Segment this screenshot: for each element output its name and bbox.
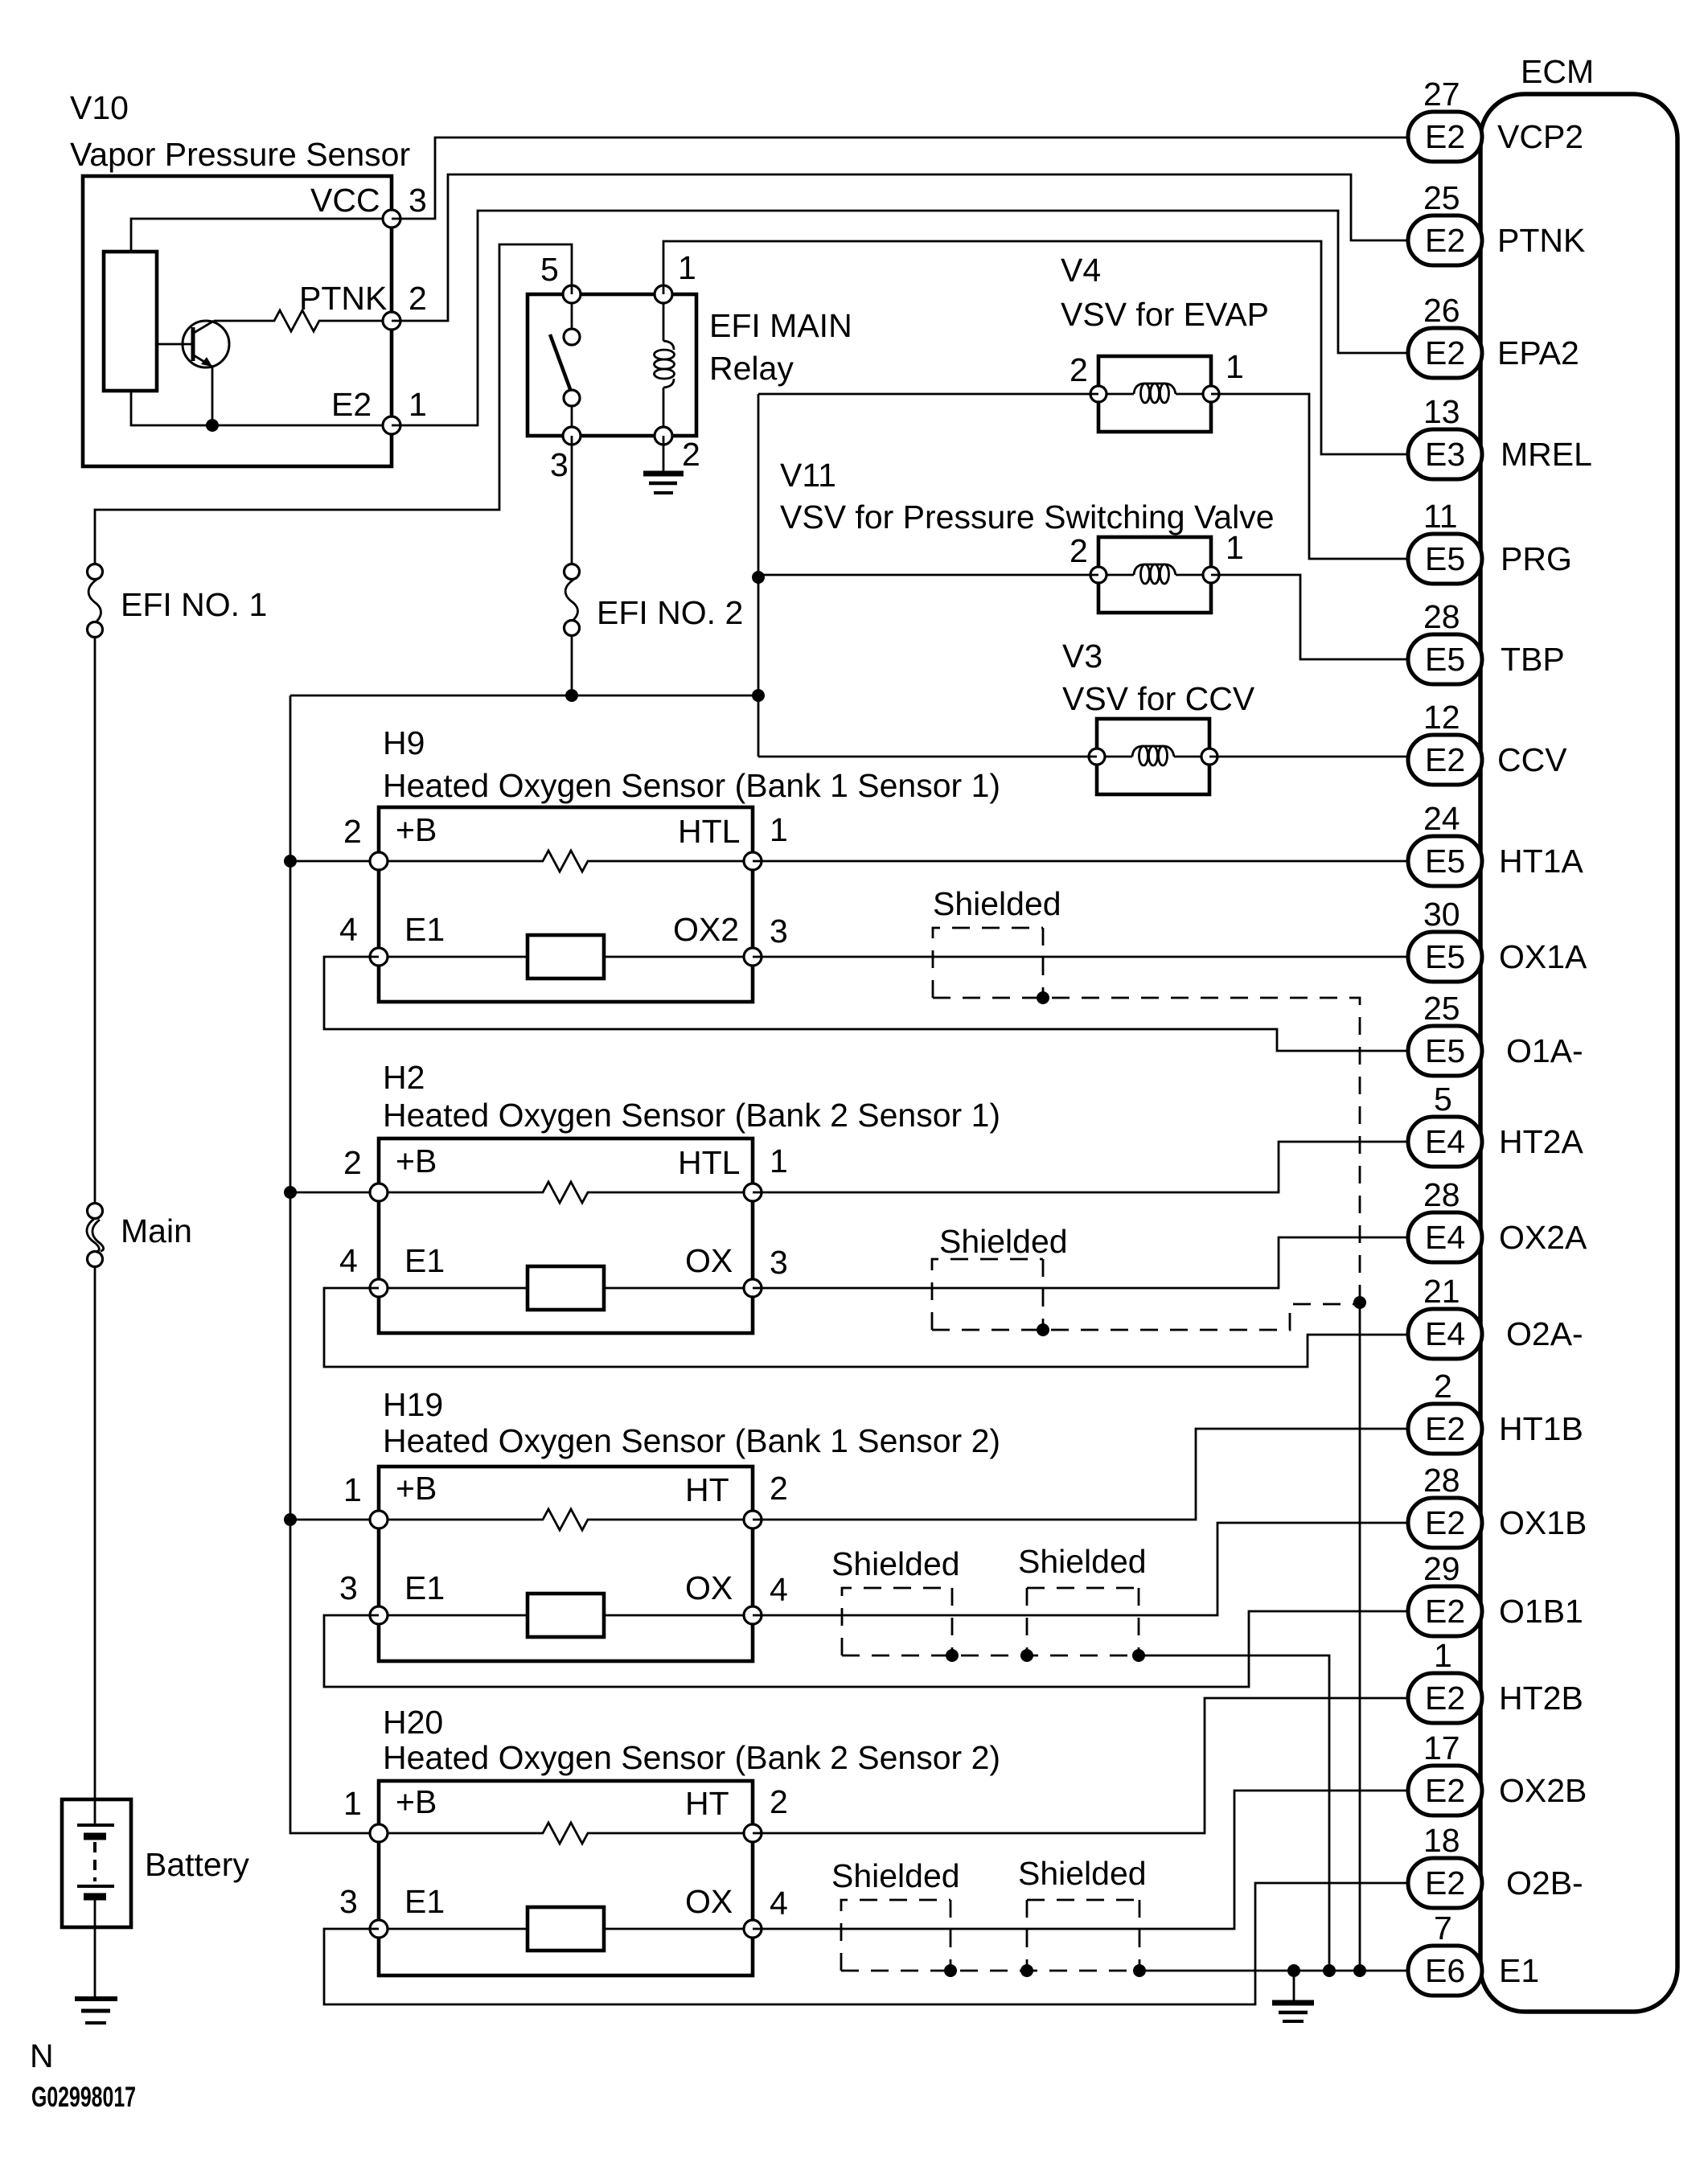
H2 sensing element xyxy=(379,1266,753,1310)
shield box 1 (H20 OX wire) xyxy=(841,1900,950,1971)
svg-text:7: 7 xyxy=(1434,1910,1452,1947)
svg-text:E5: E5 xyxy=(1425,843,1465,880)
svg-text:+B: +B xyxy=(396,1783,437,1820)
wire relay pin5 to battery feed via EFI NO.1 xyxy=(95,244,572,564)
svg-text:VSV for Pressure Switching Val: VSV for Pressure Switching Valve xyxy=(780,498,1275,535)
shield box 1 (H19 OX wire) xyxy=(842,1588,952,1655)
V10 internal wire resistor bottom to E2 xyxy=(131,391,392,425)
wire H20 HT to HT2B xyxy=(753,1698,1408,1833)
H2 pin 1 HTL circle xyxy=(744,1184,762,1201)
node: shield D junction 1 xyxy=(944,1964,957,1977)
wire V11 pin2 to supply riser xyxy=(758,574,1098,576)
wire EFI NO.2 to +B distribution junction xyxy=(571,635,573,695)
svg-text:4: 4 xyxy=(770,1885,788,1922)
ECM pin 29 E2 O1B1 xyxy=(1408,1550,1583,1636)
H20 sensing element xyxy=(379,1907,753,1951)
svg-text:E5: E5 xyxy=(1425,641,1465,678)
H19 labels xyxy=(339,1386,1000,1608)
H20 pin 3 E1 circle xyxy=(370,1920,388,1938)
relay pin 1 circle xyxy=(655,285,672,303)
ECM pin 17 E2 OX2B xyxy=(1408,1729,1587,1815)
svg-text:E2: E2 xyxy=(331,386,372,423)
svg-text:E3: E3 xyxy=(1425,436,1465,473)
V4 VSV for EVAP xyxy=(1090,356,1219,432)
V11 VSV for Pressure Switching Valve labels xyxy=(780,457,1275,569)
ECM pin 24 E5 HT1A xyxy=(1408,800,1583,886)
svg-text:E2: E2 xyxy=(1425,222,1465,259)
svg-text:3: 3 xyxy=(409,182,427,219)
shield drain (H2) dashed jog to main drain xyxy=(932,1304,1360,1330)
node: shield C junction 1 xyxy=(946,1649,959,1662)
svg-text:11: 11 xyxy=(1423,498,1458,535)
svg-text:E1: E1 xyxy=(404,911,445,948)
wire VCC(3) to VCP2 xyxy=(392,137,1408,219)
V10 internal wire VCC to resistor xyxy=(131,219,392,252)
svg-text:E1: E1 xyxy=(1499,1952,1539,1989)
wire H19 E1 to O1B1 xyxy=(324,1611,1408,1687)
V10 pin 3 VCC circle xyxy=(383,210,400,228)
svg-text:OX: OX xyxy=(685,1569,733,1606)
V10 pin 2 PTNK circle xyxy=(383,312,400,330)
shield drain (H19) dashed bottom tie xyxy=(842,1655,1139,1657)
svg-text:E5: E5 xyxy=(1425,938,1465,975)
svg-text:26: 26 xyxy=(1423,292,1460,329)
svg-text:VCC: VCC xyxy=(310,182,380,219)
svg-text:HT: HT xyxy=(685,1785,729,1822)
wire shield drain (H19) to E1 xyxy=(1139,1655,1329,1971)
wire relay pin3 to EFI NO.2 xyxy=(571,436,573,564)
svg-text:V4: V4 xyxy=(1061,252,1101,289)
svg-text:+B: +B xyxy=(396,1143,437,1179)
ECM pin 25 E2 PTNK xyxy=(1408,179,1585,265)
svg-text:H9: H9 xyxy=(383,724,425,761)
svg-text:VSV for EVAP: VSV for EVAP xyxy=(1061,296,1269,333)
svg-text:Heated Oxygen Sensor (Bank 2 S: Heated Oxygen Sensor (Bank 2 Sensor 1) xyxy=(383,1097,1000,1134)
H9 pin 2 +B circle xyxy=(370,852,388,870)
svg-text:25: 25 xyxy=(1423,990,1460,1027)
fuse EFI NO. 1 xyxy=(88,564,268,638)
svg-text:N: N xyxy=(30,2037,54,2074)
node: shield A bottom junction xyxy=(1037,991,1049,1004)
svg-text:E1: E1 xyxy=(404,1883,445,1920)
svg-text:28: 28 xyxy=(1423,1462,1460,1499)
wire +B rail down the sensors xyxy=(290,695,379,1833)
V10 pin 1 E2 circle xyxy=(383,416,400,434)
svg-text:E2: E2 xyxy=(1425,1410,1465,1447)
svg-text:EFI NO. 1: EFI NO. 1 xyxy=(121,586,267,623)
node: V10 emitter junction xyxy=(206,419,219,432)
svg-text:29: 29 xyxy=(1423,1550,1460,1587)
ECM pin 7 E6 E1 xyxy=(1408,1910,1539,1996)
H2 pin 4 E1 circle xyxy=(370,1279,388,1297)
svg-text:OX2: OX2 xyxy=(673,911,739,948)
H2 labels xyxy=(339,1059,1000,1281)
svg-text:1: 1 xyxy=(1226,348,1244,385)
svg-text:Shielded: Shielded xyxy=(831,1545,960,1582)
wire H2 OX to OX2A xyxy=(753,1237,1408,1288)
H19 pin 3 E1 circle xyxy=(370,1606,388,1624)
H2 pin 3 OX circle xyxy=(744,1279,762,1297)
svg-text:5: 5 xyxy=(540,251,559,288)
H20 pin 4 OX circle xyxy=(744,1920,762,1938)
node: junction +B rail / VSV supply riser xyxy=(752,689,765,702)
svg-text:PTNK: PTNK xyxy=(1497,222,1585,259)
svg-text:OX1B: OX1B xyxy=(1499,1504,1587,1541)
svg-text:HT1B: HT1B xyxy=(1499,1410,1583,1447)
wire H9 E1 to O1A- xyxy=(324,957,1408,1051)
V3 VSV for CCV labels xyxy=(1062,638,1255,717)
svg-text:17: 17 xyxy=(1423,1729,1460,1766)
H9 pin 3 OX2 circle xyxy=(744,948,762,966)
node: drain junction xyxy=(1353,1296,1366,1309)
svg-text:V10: V10 xyxy=(70,89,129,126)
svg-text:2: 2 xyxy=(1070,532,1088,569)
ECM pin 1 E2 HT2B xyxy=(1408,1637,1583,1723)
svg-text:2: 2 xyxy=(770,1783,788,1820)
svg-text:2: 2 xyxy=(1070,351,1088,388)
svg-text:3: 3 xyxy=(339,1569,358,1606)
H20 Heated Oxygen Sensor box xyxy=(379,1781,753,1975)
svg-text:HT2A: HT2A xyxy=(1499,1123,1583,1160)
V10 pin labels xyxy=(299,182,427,423)
svg-text:3: 3 xyxy=(770,1244,788,1281)
H19 heater resistor xyxy=(379,1509,753,1530)
svg-text:E4: E4 xyxy=(1425,1123,1465,1160)
shield drain (H20) dashed bottom tie xyxy=(841,1970,1139,1972)
svg-text:+B: +B xyxy=(396,811,437,848)
wire E1 bus to ECM E1 pin xyxy=(1139,1970,1408,1972)
svg-text:2: 2 xyxy=(770,1470,788,1507)
node: junction V11 supply xyxy=(752,571,765,584)
svg-text:HT1A: HT1A xyxy=(1499,843,1583,880)
ground (relay pin 2) xyxy=(643,436,684,493)
svg-text:Heated Oxygen Sensor (Bank 1 S: Heated Oxygen Sensor (Bank 1 Sensor 1) xyxy=(383,767,1000,804)
svg-text:Relay: Relay xyxy=(709,350,794,387)
svg-text:Shielded: Shielded xyxy=(933,885,1061,922)
relay switch xyxy=(550,294,580,436)
svg-text:E2: E2 xyxy=(1425,118,1465,155)
svg-text:1: 1 xyxy=(770,811,788,848)
svg-text:VSV for CCV: VSV for CCV xyxy=(1062,680,1255,717)
svg-text:ECM: ECM xyxy=(1521,53,1594,90)
svg-text:Shielded: Shielded xyxy=(1018,1855,1147,1892)
node: shield D junction 3 xyxy=(1133,1964,1146,1977)
ECM pin 28 E4 OX2A xyxy=(1408,1176,1587,1262)
fuse EFI NO. 2 xyxy=(565,564,744,636)
V4 VSV for EVAP labels xyxy=(1061,252,1269,388)
svg-text:CCV: CCV xyxy=(1497,741,1567,778)
svg-text:25: 25 xyxy=(1423,179,1460,216)
svg-text:E2: E2 xyxy=(1425,334,1465,371)
svg-text:4: 4 xyxy=(770,1571,788,1608)
shield box (H2 OX wire) xyxy=(932,1259,1043,1330)
svg-text:OX: OX xyxy=(685,1242,733,1279)
svg-text:E4: E4 xyxy=(1425,1315,1465,1352)
ECM pin 13 E3 MREL xyxy=(1408,393,1592,479)
svg-text:V11: V11 xyxy=(780,457,836,494)
svg-text:Main: Main xyxy=(121,1212,192,1249)
shield box 2 (H20 OX wire) xyxy=(1027,1900,1139,1971)
wire H9 OX2 to OX1A xyxy=(753,956,1408,958)
wire H9 HTL to HT1A xyxy=(753,860,1408,863)
relay pin 5 circle xyxy=(563,285,581,303)
wire stub to H9 +B xyxy=(290,860,379,863)
svg-text:28: 28 xyxy=(1423,1176,1460,1213)
H19 pin 1 +B circle xyxy=(370,1511,388,1528)
wire H19 HT to HT1B xyxy=(753,1429,1408,1520)
H19 pin 4 OX circle xyxy=(744,1606,762,1624)
svg-text:HT: HT xyxy=(685,1471,729,1508)
EFI MAIN Relay box xyxy=(528,294,696,436)
svg-text:Battery: Battery xyxy=(145,1846,249,1883)
svg-text:PTNK: PTNK xyxy=(299,280,387,317)
svg-text:E2: E2 xyxy=(1425,741,1465,778)
svg-text:Heated Oxygen Sensor (Bank 2 S: Heated Oxygen Sensor (Bank 2 Sensor 2) xyxy=(383,1739,1000,1776)
shield box 2 (H19 OX wire) xyxy=(1027,1588,1139,1655)
svg-text:EPA2: EPA2 xyxy=(1497,334,1579,371)
svg-text:E2: E2 xyxy=(1425,1504,1465,1541)
node: shield C junction 3 xyxy=(1132,1649,1145,1662)
H9 sensing element xyxy=(379,935,753,978)
svg-text:HTL: HTL xyxy=(678,813,740,850)
svg-text:28: 28 xyxy=(1423,598,1460,635)
node: H9 +B tap xyxy=(284,855,297,868)
ECM box xyxy=(1480,53,1677,2012)
svg-text:1: 1 xyxy=(343,1785,362,1822)
shield drain (H9) dashed to main drain xyxy=(933,998,1360,1303)
svg-text:24: 24 xyxy=(1423,800,1460,837)
wire VSV supply riser xyxy=(758,394,760,757)
wire H19 OX to OX1B xyxy=(753,1523,1408,1615)
svg-text:H2: H2 xyxy=(383,1059,425,1096)
H20 pin 1 +B circle xyxy=(370,1824,388,1842)
H9 pin 4 E1 circle xyxy=(370,948,388,966)
wire E2(1) to EPA2 xyxy=(392,211,1408,425)
svg-text:1: 1 xyxy=(409,386,427,423)
svg-text:MREL: MREL xyxy=(1501,436,1592,473)
svg-text:O2A-: O2A- xyxy=(1506,1315,1583,1352)
svg-text:PRG: PRG xyxy=(1501,540,1572,577)
V10 Vapor Pressure Sensor box xyxy=(83,176,392,466)
svg-text:O1A-: O1A- xyxy=(1506,1032,1583,1069)
H9 labels xyxy=(339,724,1000,950)
svg-text:E2: E2 xyxy=(1425,1772,1465,1809)
wire stub to H19 +B xyxy=(290,1519,379,1521)
node: E1 ground tap xyxy=(1287,1964,1300,1977)
svg-text:E5: E5 xyxy=(1425,540,1465,577)
H20 labels xyxy=(339,1704,1000,1922)
H19 Heated Oxygen Sensor box xyxy=(379,1467,753,1661)
svg-text:21: 21 xyxy=(1423,1273,1460,1310)
wire EFI NO.1 to Main fuse xyxy=(94,637,96,1204)
ECM pin 26 E2 EPA2 xyxy=(1408,292,1579,378)
V10 Vapor Pressure Sensor labels xyxy=(70,89,410,173)
svg-text:EFI NO. 2: EFI NO. 2 xyxy=(597,594,743,631)
V3 VSV for CCV xyxy=(1089,719,1217,794)
H20 pin 2 HT circle xyxy=(744,1824,762,1842)
svg-text:2: 2 xyxy=(409,280,427,317)
svg-text:E2: E2 xyxy=(1425,1593,1465,1630)
wire main shield drain to E1 xyxy=(1359,1303,1361,1971)
transistor Q (vapor pressure sensor) xyxy=(157,321,229,425)
svg-text:27: 27 xyxy=(1423,76,1460,113)
svg-text:O2B-: O2B- xyxy=(1506,1865,1583,1901)
svg-text:Shielded: Shielded xyxy=(831,1857,960,1894)
wire V3 pin1 to CCV xyxy=(1209,756,1408,758)
svg-text:2: 2 xyxy=(343,1144,362,1181)
ECM pin 28 E2 OX1B xyxy=(1408,1462,1587,1548)
ground (battery) xyxy=(75,1999,117,2023)
ECM pin 11 E5 PRG xyxy=(1408,498,1572,584)
wire stub to H2 +B xyxy=(290,1192,379,1194)
H9 pin 1 HTL circle xyxy=(744,852,762,870)
svg-text:12: 12 xyxy=(1423,699,1460,736)
ECM pin 28 E5 TBP xyxy=(1408,598,1565,684)
wire H20 E1 to O2B- xyxy=(324,1883,1408,2004)
resistor R (V10 output) zigzag xyxy=(214,310,392,331)
svg-text:E2: E2 xyxy=(1425,1865,1465,1901)
ECM pin 30 E5 OX1A xyxy=(1408,896,1587,982)
EFI MAIN Relay labels xyxy=(540,249,852,483)
svg-text:13: 13 xyxy=(1423,393,1460,430)
svg-text:Shielded: Shielded xyxy=(1018,1543,1147,1580)
svg-text:E5: E5 xyxy=(1425,1032,1465,1069)
battery xyxy=(62,1799,249,1996)
svg-text:E6: E6 xyxy=(1425,1952,1465,1989)
fuse Main xyxy=(87,1204,192,1267)
svg-text:1: 1 xyxy=(343,1471,362,1508)
svg-text:30: 30 xyxy=(1423,896,1460,933)
svg-text:1: 1 xyxy=(1434,1637,1452,1674)
H20 heater resistor xyxy=(379,1823,753,1844)
svg-text:OX2B: OX2B xyxy=(1499,1772,1587,1809)
wire Main fuse to battery xyxy=(94,1266,96,1801)
wire V4 pin1 to PRG xyxy=(1211,394,1408,559)
svg-text:18: 18 xyxy=(1423,1822,1460,1859)
svg-text:1: 1 xyxy=(1226,529,1244,566)
svg-text:1: 1 xyxy=(770,1143,788,1179)
wire V11 pin1 to TBP xyxy=(1211,575,1408,659)
H9 Heated Oxygen Sensor box xyxy=(379,807,753,1002)
relay coil xyxy=(655,294,675,436)
svg-text:OX2A: OX2A xyxy=(1499,1219,1587,1256)
relay pin 2 circle xyxy=(655,427,672,445)
svg-text:3: 3 xyxy=(339,1883,358,1920)
svg-text:OX1A: OX1A xyxy=(1499,938,1587,975)
wire relay pin1 to MREL xyxy=(663,241,1408,454)
svg-text:+B: +B xyxy=(396,1470,437,1507)
svg-text:O1B1: O1B1 xyxy=(1499,1593,1583,1630)
node: H19 +B tap xyxy=(284,1513,297,1526)
H2 heater resistor xyxy=(379,1182,753,1203)
ground (E1 bus) xyxy=(1272,1971,1314,2021)
node: shield C junction 2 xyxy=(1020,1649,1033,1662)
svg-text:G02998017: G02998017 xyxy=(31,2082,136,2113)
shield box (H9 OX wire) xyxy=(933,928,1043,998)
svg-text:2: 2 xyxy=(1434,1368,1452,1405)
svg-text:3: 3 xyxy=(770,913,788,950)
svg-text:HT2B: HT2B xyxy=(1499,1680,1583,1717)
svg-text:E1: E1 xyxy=(404,1569,445,1606)
wire H2 E1 to O2A- xyxy=(324,1288,1408,1367)
svg-text:4: 4 xyxy=(339,911,358,948)
svg-text:4: 4 xyxy=(339,1242,358,1279)
ECM pin 21 E4 O2A- xyxy=(1408,1273,1583,1359)
ECM pin 5 E4 HT2A xyxy=(1408,1081,1583,1167)
svg-text:E4: E4 xyxy=(1425,1219,1465,1256)
svg-text:HTL: HTL xyxy=(678,1144,740,1181)
H2 Heated Oxygen Sensor box xyxy=(379,1138,753,1333)
svg-text:3: 3 xyxy=(550,446,569,483)
wire H2 HTL to HT2A xyxy=(753,1142,1408,1192)
H2 pin 2 +B circle xyxy=(370,1184,388,1201)
svg-text:VCP2: VCP2 xyxy=(1497,118,1583,155)
wire H20 OX to OX2B xyxy=(753,1791,1408,1929)
ECM pin 2 E2 HT1B xyxy=(1408,1368,1583,1454)
V11 VSV for Pressure Switching Valve xyxy=(1090,537,1219,613)
svg-text:Vapor Pressure Sensor: Vapor Pressure Sensor xyxy=(70,136,410,173)
relay pin 3 circle xyxy=(563,427,581,445)
svg-text:H19: H19 xyxy=(383,1386,443,1423)
svg-text:V3: V3 xyxy=(1062,638,1102,675)
resistor (pressure sensing element) in V10 xyxy=(104,252,157,391)
H9 heater resistor xyxy=(379,851,753,872)
node: main drain junction at E1 xyxy=(1353,1964,1366,1977)
H19 sensing element xyxy=(379,1594,753,1637)
node: junction EFI NO.2 / +B rail xyxy=(565,689,578,702)
svg-text:2: 2 xyxy=(682,436,700,473)
svg-text:E2: E2 xyxy=(1425,1680,1465,1717)
ECM pin 12 E2 CCV xyxy=(1408,699,1567,785)
node: shield D junction 2 xyxy=(1020,1964,1033,1977)
wire V3 pin2 to supply riser xyxy=(758,756,1097,758)
svg-text:E1: E1 xyxy=(404,1242,445,1279)
ECM pin 27 E2 VCP2 xyxy=(1408,76,1583,162)
svg-text:TBP: TBP xyxy=(1501,641,1565,678)
ECM pin 25 E5 O1A- xyxy=(1408,990,1583,1076)
svg-text:Shielded: Shielded xyxy=(939,1223,1068,1260)
node: shield B bottom junction xyxy=(1037,1323,1049,1336)
wire V4 pin2 to supply riser xyxy=(758,393,1098,396)
svg-text:Heated Oxygen Sensor (Bank 1 S: Heated Oxygen Sensor (Bank 1 Sensor 2) xyxy=(383,1422,1000,1459)
svg-text:1: 1 xyxy=(678,249,696,286)
node: shield C drain junction xyxy=(1323,1964,1336,1977)
svg-text:H20: H20 xyxy=(383,1704,443,1741)
svg-text:5: 5 xyxy=(1434,1081,1452,1118)
svg-text:OX: OX xyxy=(685,1883,733,1920)
node: H2 +B tap xyxy=(284,1186,297,1199)
H19 pin 2 HT circle xyxy=(744,1511,762,1528)
ECM pin 18 E2 O2B- xyxy=(1408,1822,1583,1908)
wire +B distribution horizontal xyxy=(290,695,758,697)
wire PTNK(2) to PTNK xyxy=(392,174,1408,321)
svg-text:2: 2 xyxy=(343,813,362,850)
svg-text:EFI MAIN: EFI MAIN xyxy=(709,307,852,344)
